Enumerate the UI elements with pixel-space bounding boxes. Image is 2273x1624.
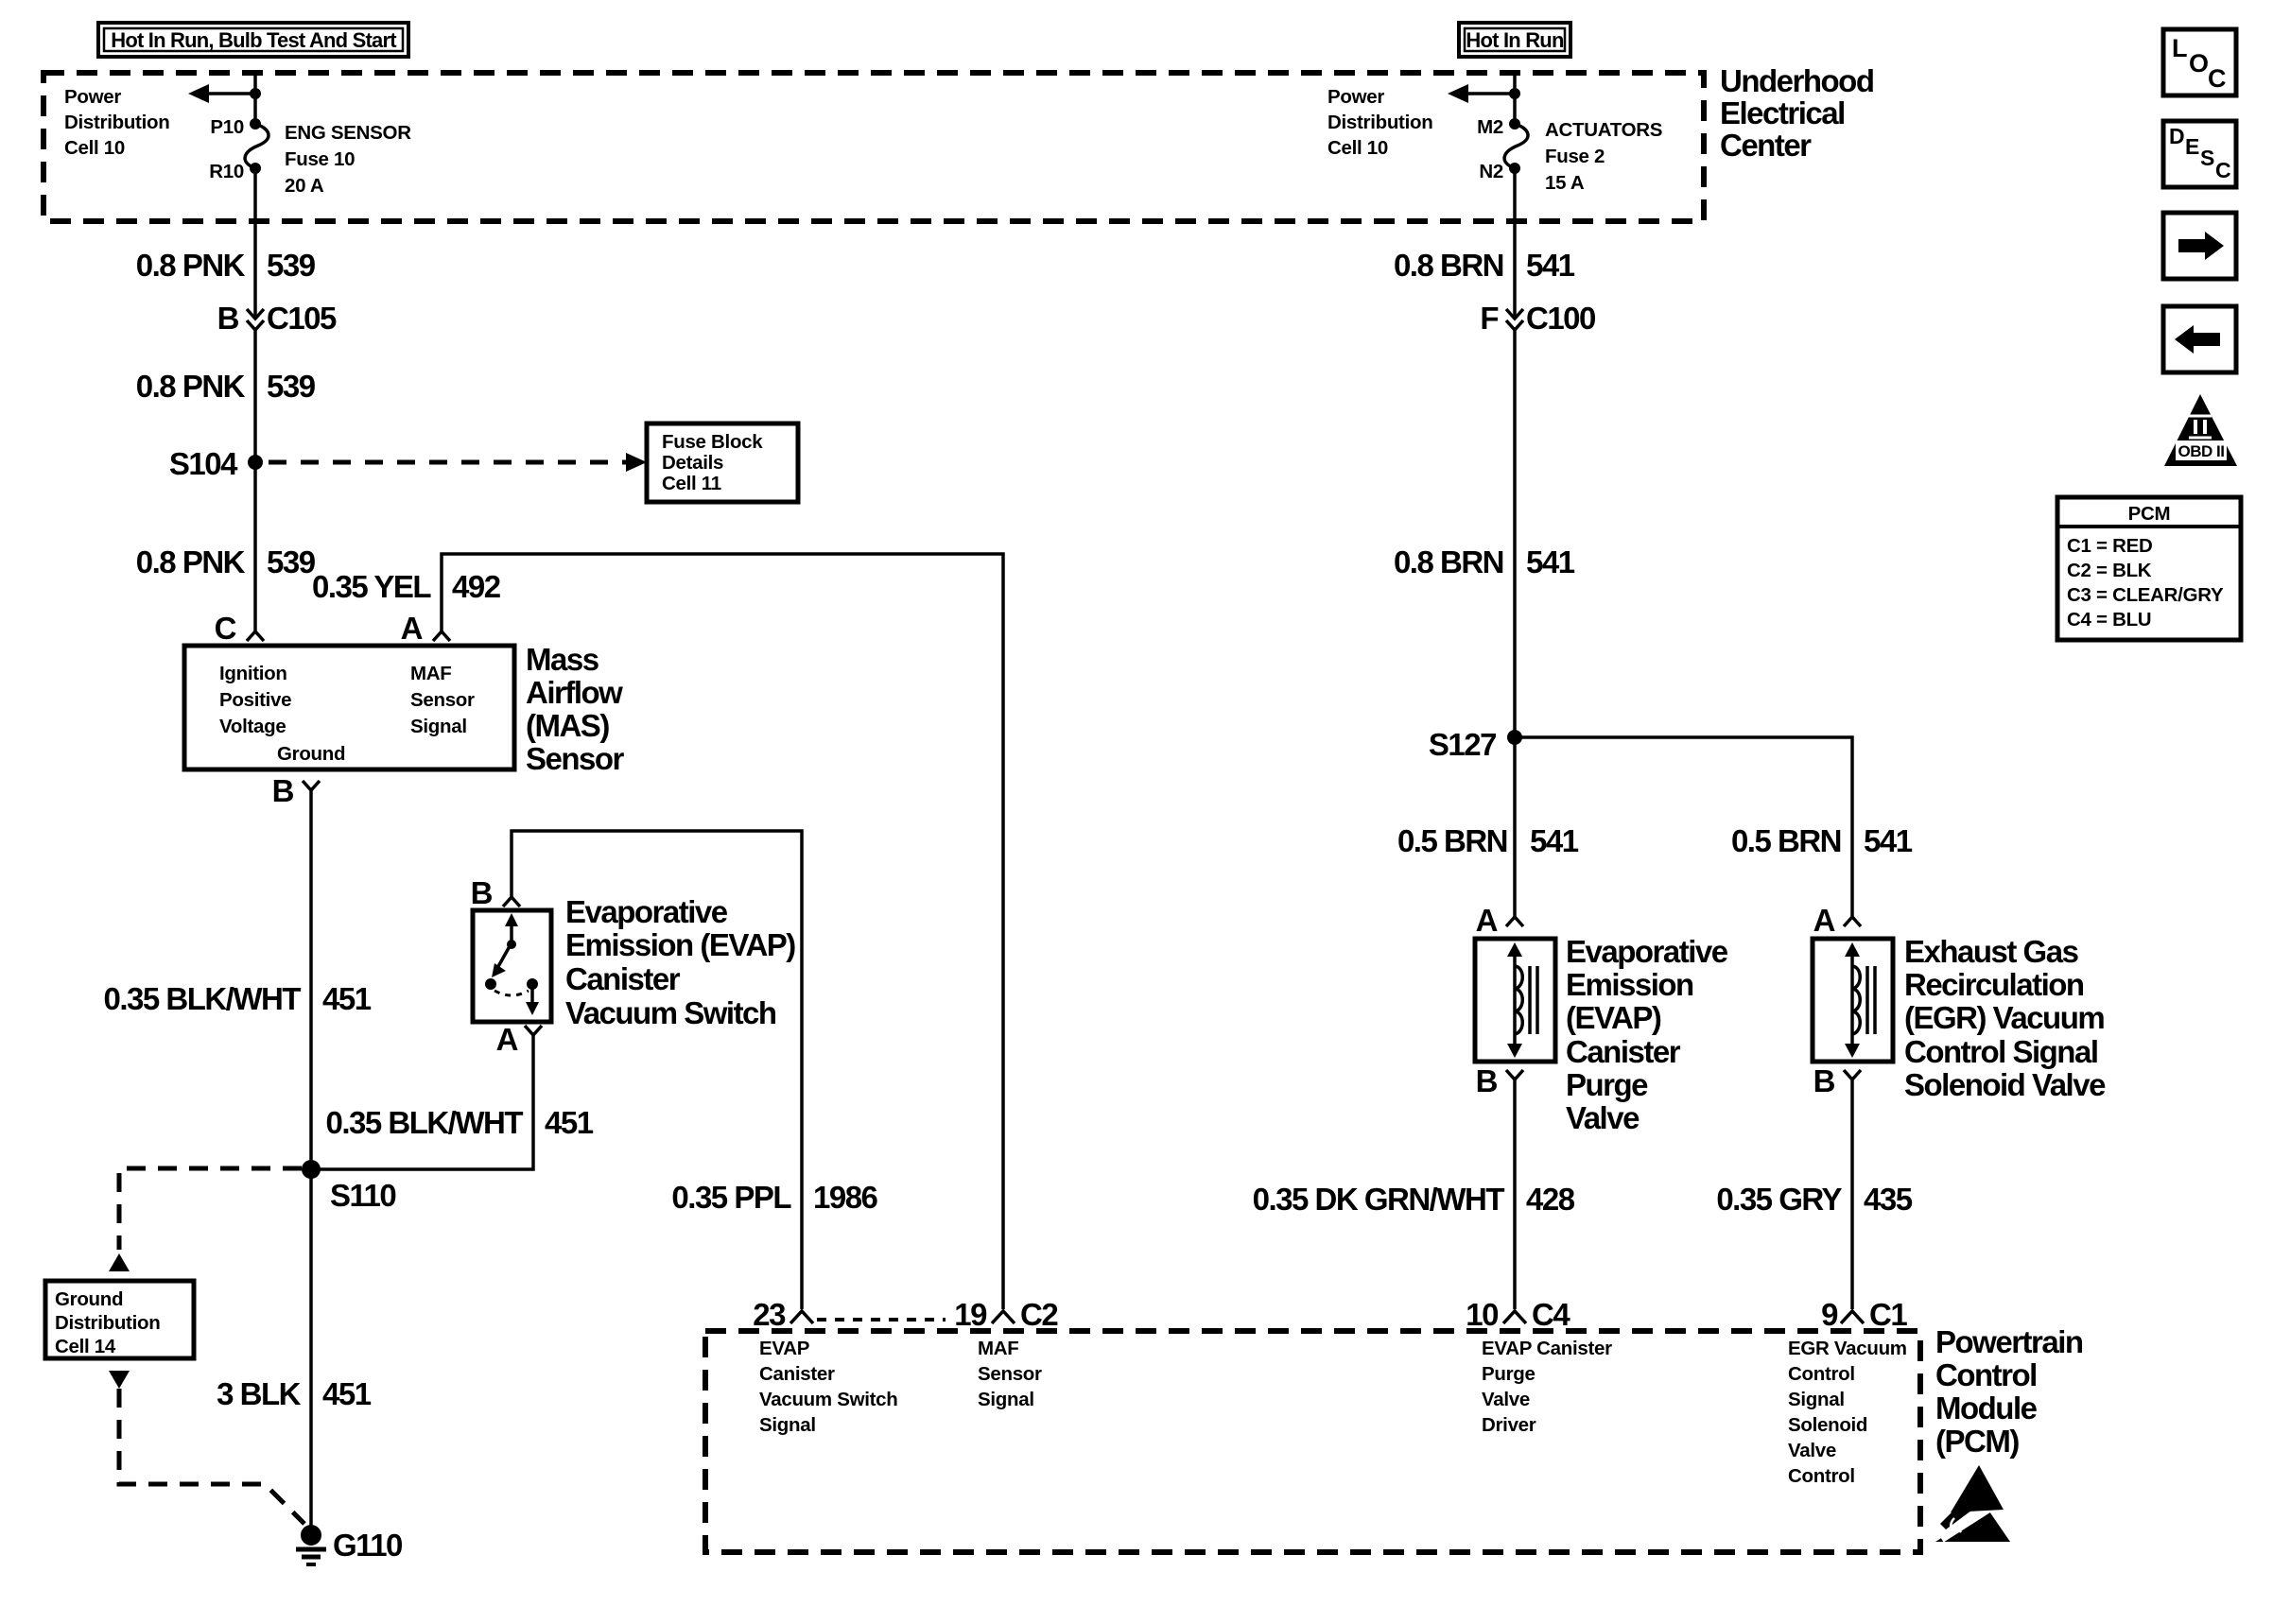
svg-text:Evaporative: Evaporative: [1566, 934, 1728, 969]
svg-text:435: 435: [1864, 1182, 1913, 1217]
svg-text:541: 541: [1864, 823, 1913, 858]
label Ignition Positive Voltage: [219, 663, 291, 737]
label MAF Sensor Signal: [410, 663, 475, 737]
MAF (Mass Airflow) sensor box U1: [184, 646, 514, 769]
svg-text:Fuse Block: Fuse Block: [662, 431, 763, 453]
wire S127 down to EVAP purge solenoid: [1513, 737, 1517, 917]
svg-text:451: 451: [322, 981, 372, 1016]
wire: feed from Hot In Run into fuse M2: [1513, 70, 1517, 124]
svg-text:492: 492: [452, 569, 501, 604]
wire label 3 BLK 451: [217, 1376, 372, 1411]
svg-text:Ground: Ground: [55, 1288, 123, 1310]
svg-text:Cell 11: Cell 11: [662, 473, 721, 494]
svg-text:3 BLK: 3 BLK: [217, 1376, 302, 1411]
svg-text:R10: R10: [209, 161, 244, 182]
connector C100 (in-line, pin F): [1480, 301, 1595, 336]
svg-text:N2: N2: [1479, 161, 1503, 182]
svg-text:1986: 1986: [813, 1180, 878, 1215]
wire (dashed) S110 to Ground Distribution: [119, 1168, 302, 1250]
svg-text:Signal: Signal: [1788, 1389, 1845, 1410]
svg-text:Canister: Canister: [565, 961, 681, 996]
svg-text:0.35 YEL: 0.35 YEL: [312, 569, 431, 604]
svg-text:Valve: Valve: [1482, 1389, 1530, 1410]
wire label 0.8 PNK 539: [136, 544, 316, 579]
svg-text:(EVAP): (EVAP): [1566, 1000, 1661, 1035]
svg-text:451: 451: [545, 1105, 594, 1140]
svg-text:C105: C105: [267, 301, 337, 336]
svg-text:S: S: [2200, 146, 2214, 170]
wire (dashed) S104 to Fuse Block Details: [269, 453, 647, 472]
wire: feed from Hot In Run into fuse P10: [253, 70, 257, 124]
svg-text:E: E: [2185, 134, 2199, 159]
svg-text:541: 541: [1526, 248, 1575, 283]
wire label 0.35 PPL 1986: [671, 1180, 877, 1215]
EGR vacuum control solenoid L2: [1813, 939, 1893, 1062]
arrowhead out of Ground Distribution box: [109, 1371, 130, 1389]
pin 10 of PCM connector C4: [1466, 1297, 1570, 1332]
svg-text:Distribution: Distribution: [1327, 112, 1432, 133]
label EVAP Canister Vacuum Switch Signal: [759, 1338, 897, 1436]
wire 0.8 BRN 541 (C100 to S127): [1513, 330, 1517, 737]
wire label 0.8 PNK 539: [136, 369, 316, 404]
svg-text:Ignition: Ignition: [219, 663, 287, 684]
svg-text:0.35 BLK/WHT: 0.35 BLK/WHT: [103, 981, 301, 1016]
legend box PCM connectors: [2057, 497, 2241, 640]
svg-text:539: 539: [267, 248, 316, 283]
node S110: [302, 1160, 395, 1213]
svg-text:G110: G110: [333, 1528, 402, 1563]
label Evaporative Emission (EVAP) Canister Vacuum Switch: [565, 894, 795, 1030]
pin B of EVAP canister vacuum switch: [471, 875, 520, 910]
svg-text:0.35 GRY: 0.35 GRY: [1716, 1182, 1842, 1217]
svg-text:539: 539: [267, 369, 316, 404]
svg-text:Control Signal: Control Signal: [1904, 1034, 2098, 1069]
wire label 0.5 BRN 541 (right): [1731, 823, 1913, 858]
svg-text:Distribution: Distribution: [64, 112, 169, 133]
svg-text:C2 = BLK: C2 = BLK: [2067, 560, 2152, 581]
wire label 0.35 BLK/WHT 451: [103, 981, 371, 1016]
wire 0.35 GRY 435 (to PCM pin 9): [1850, 1080, 1854, 1309]
svg-text:O: O: [2189, 49, 2208, 78]
svg-text:D: D: [2169, 124, 2184, 148]
svg-text:19: 19: [954, 1297, 987, 1332]
wire label 0.35 GRY 435: [1716, 1182, 1912, 1217]
svg-text:9: 9: [1821, 1297, 1838, 1332]
label Powertrain Control Module (PCM): [1935, 1324, 2083, 1459]
svg-text:Sensor: Sensor: [978, 1363, 1042, 1385]
svg-text:23: 23: [753, 1297, 786, 1332]
svg-text:MAF: MAF: [978, 1338, 1019, 1359]
svg-text:A: A: [401, 611, 423, 646]
svg-text:Distribution: Distribution: [55, 1312, 160, 1334]
label box Fuse Block Details Cell 11: [647, 423, 798, 502]
svg-text:A: A: [1813, 903, 1835, 938]
svg-text:0.8 BRN: 0.8 BRN: [1394, 248, 1503, 283]
svg-text:Fuse 2: Fuse 2: [1545, 146, 1605, 167]
svg-text:ACTUATORS: ACTUATORS: [1545, 119, 1662, 141]
svg-text:Cell 14: Cell 14: [55, 1336, 116, 1357]
wire label 0.5 BRN 541 (left): [1397, 823, 1579, 858]
pin B of EGR solenoid: [1813, 1063, 1861, 1098]
pin 9 of PCM connector C1: [1821, 1297, 1907, 1332]
svg-text:MAF: MAF: [410, 663, 452, 684]
svg-text:(MAS): (MAS): [526, 708, 609, 743]
svg-text:Vacuum Switch: Vacuum Switch: [759, 1389, 897, 1410]
svg-text:Hot In Run, Bulb Test And Star: Hot In Run, Bulb Test And Start: [111, 28, 397, 52]
switch symbol inside: [485, 913, 539, 1015]
svg-text:C1 = RED: C1 = RED: [2067, 535, 2152, 557]
svg-text:Purge: Purge: [1566, 1067, 1648, 1102]
svg-text:Driver: Driver: [1482, 1414, 1536, 1436]
label box Hot In Run, Bulb Test And Start: [98, 23, 408, 57]
svg-text:Module: Module: [1935, 1391, 2038, 1425]
svg-text:0.35 DK GRN/WHT: 0.35 DK GRN/WHT: [1253, 1182, 1505, 1217]
pin A of EVAP purge solenoid: [1476, 903, 1523, 938]
svg-text:C4 = BLU: C4 = BLU: [2067, 609, 2151, 631]
svg-text:Electrical: Electrical: [1720, 95, 1845, 130]
node S127: [1429, 727, 1522, 762]
svg-text:Emission (EVAP): Emission (EVAP): [565, 927, 795, 962]
wire 0.8 PNK 539 (fuse to C105): [253, 168, 257, 319]
svg-text:C1: C1: [1869, 1297, 1907, 1332]
label Evaporative Emission (EVAP) Canister Purge Valve: [1566, 934, 1728, 1135]
svg-text:Canister: Canister: [1566, 1034, 1681, 1069]
wire S127 branch to EGR solenoid: [1515, 737, 1852, 917]
label Mass Airflow (MAS) Sensor: [526, 642, 625, 776]
svg-text:C2: C2: [1020, 1297, 1058, 1332]
svg-text:B: B: [217, 301, 239, 336]
svg-text:541: 541: [1526, 544, 1575, 579]
wire label 0.8 PNK 539: [136, 248, 316, 283]
EVAP canister vacuum switch box S1: [473, 910, 551, 1022]
svg-text:F: F: [1480, 301, 1498, 336]
svg-text:S104: S104: [169, 446, 238, 481]
wire 0.8 PNK 539 (C105 to S104): [253, 330, 257, 462]
pin A of EVAP canister vacuum switch: [496, 1022, 542, 1057]
svg-text:Signal: Signal: [759, 1414, 816, 1436]
pin B of EVAP purge solenoid: [1476, 1063, 1523, 1098]
svg-text:Valve: Valve: [1788, 1440, 1836, 1461]
svg-text:0.35 PPL: 0.35 PPL: [671, 1180, 791, 1215]
EVAP canister purge valve solenoid L1: [1475, 939, 1555, 1062]
wire label 0.8 BRN 541: [1394, 544, 1575, 579]
svg-text:Sensor: Sensor: [526, 741, 625, 776]
svg-text:Vacuum Switch: Vacuum Switch: [565, 995, 776, 1030]
fuse F10 ENG SENSOR (P10/R10 terminals + element): [245, 118, 269, 174]
node junction dot right: [1509, 88, 1520, 99]
svg-text:EVAP: EVAP: [759, 1338, 809, 1359]
value label ENG SENSOR Fuse 10 20 A: [285, 122, 411, 197]
svg-text:Evaporative: Evaporative: [565, 894, 728, 929]
wire 0.8 PNK 539 (S104 to MAF pin C): [253, 462, 257, 631]
pin B of MAF sensor: [272, 773, 320, 808]
icon LOC box: [2163, 29, 2236, 95]
svg-text:B: B: [272, 773, 294, 808]
svg-text:EGR Vacuum: EGR Vacuum: [1788, 1338, 1907, 1359]
svg-text:539: 539: [267, 544, 316, 579]
wire label 0.8 BRN 541: [1394, 248, 1575, 283]
wire 3 BLK 451 (S110 to G110): [309, 1169, 313, 1531]
icon left-arrow box: [2163, 306, 2236, 372]
svg-text:C100: C100: [1526, 301, 1595, 336]
svg-text:C4: C4: [1532, 1297, 1570, 1332]
svg-text:OBD II: OBD II: [2178, 442, 2225, 460]
pin 23 of PCM: [753, 1297, 813, 1332]
node junction dot left: [250, 88, 261, 99]
svg-text:P10: P10: [210, 116, 244, 138]
svg-text:Control: Control: [1788, 1465, 1855, 1487]
pin A of MAF sensor: [401, 611, 450, 646]
value label ACTUATORS Fuse 2 15 A: [1545, 119, 1662, 194]
svg-text:Hot In Run: Hot In Run: [1466, 28, 1564, 52]
svg-text:541: 541: [1530, 823, 1579, 858]
svg-text:ENG SENSOR: ENG SENSOR: [285, 122, 411, 144]
svg-text:B: B: [1476, 1063, 1498, 1098]
svg-text:Airflow: Airflow: [526, 675, 623, 710]
label Exhaust Gas Recirculation (EGR) Vacuum Control Signal Solenoid Valve: [1904, 934, 2106, 1102]
svg-text:S110: S110: [330, 1178, 395, 1213]
svg-text:Mass: Mass: [526, 642, 599, 677]
svg-text:10: 10: [1466, 1297, 1498, 1332]
wire 0.35 BLK/WHT 451 (switch pin A to S110): [311, 1035, 533, 1169]
svg-text:0.8 BRN: 0.8 BRN: [1394, 544, 1503, 579]
svg-text:A: A: [1476, 903, 1498, 938]
Underhood Electrical Center dashed box: [43, 73, 1704, 221]
pin A of EGR solenoid: [1813, 903, 1861, 938]
svg-text:Center: Center: [1720, 128, 1812, 163]
pin C of MAF sensor: [215, 611, 264, 646]
pin 19 of PCM connector C2: [954, 1297, 1058, 1332]
svg-text:C: C: [215, 611, 236, 646]
svg-text:S127: S127: [1429, 727, 1496, 762]
svg-text:Valve: Valve: [1566, 1100, 1640, 1135]
svg-text:C: C: [2208, 64, 2226, 93]
svg-text:Canister: Canister: [759, 1363, 835, 1385]
ground G110: [296, 1525, 402, 1564]
wire label 0.35 YEL 492: [312, 569, 501, 604]
connector C105 (in-line, pin B): [217, 301, 337, 336]
wire label 0.35 DK GRN/WHT 428: [1253, 1182, 1575, 1217]
svg-text:15 A: 15 A: [1545, 172, 1585, 194]
svg-text:0.8 PNK: 0.8 PNK: [136, 544, 246, 579]
svg-text:L: L: [2172, 34, 2187, 62]
icon DESC box: [2163, 121, 2236, 187]
icon OBD II triangle: [2164, 394, 2237, 466]
icon ESD sensitive symbol: [1935, 1465, 2010, 1542]
label box Hot In Run: [1459, 23, 1570, 57]
icon right-arrow box: [2163, 213, 2236, 279]
wire 0.8 BRN 541 (fuse to C100): [1513, 168, 1517, 319]
svg-text:C: C: [2215, 158, 2230, 182]
svg-text:(PCM): (PCM): [1935, 1424, 2019, 1459]
svg-text:451: 451: [322, 1376, 372, 1411]
label Power Distribution Cell 10 (left): [64, 86, 169, 159]
svg-text:(EGR) Vacuum: (EGR) Vacuum: [1904, 1000, 2104, 1035]
svg-text:Exhaust Gas: Exhaust Gas: [1904, 934, 2078, 969]
svg-text:0.35 BLK/WHT: 0.35 BLK/WHT: [325, 1105, 523, 1140]
svg-text:EVAP Canister: EVAP Canister: [1482, 1338, 1612, 1359]
svg-text:Solenoid Valve: Solenoid Valve: [1904, 1067, 2106, 1102]
wire (dashed) connector link pin 23 to pin 19: [817, 1318, 946, 1322]
label Underhood Electrical Center: [1720, 63, 1873, 163]
arrowhead into Ground Distribution box: [109, 1253, 130, 1271]
fuse F2 ACTUATORS (M2/N2 terminals + element): [1504, 118, 1528, 174]
svg-text:Signal: Signal: [410, 716, 467, 737]
svg-text:0.8 PNK: 0.8 PNK: [136, 248, 246, 283]
svg-text:Sensor: Sensor: [410, 689, 475, 711]
arrow to Power Distribution (left): [188, 84, 255, 103]
svg-text:Purge: Purge: [1482, 1363, 1536, 1385]
svg-text:Voltage: Voltage: [219, 716, 286, 737]
svg-text:B: B: [471, 875, 493, 910]
label EGR Vacuum Control Signal Solenoid Valve Control: [1788, 1338, 1907, 1487]
svg-text:B: B: [1813, 1063, 1835, 1098]
svg-text:Control: Control: [1935, 1357, 2037, 1392]
svg-text:0.5 BRN: 0.5 BRN: [1731, 823, 1841, 858]
wire 0.35 DK GRN/WHT 428 (to PCM pin 10): [1513, 1080, 1517, 1309]
label EVAP Canister Purge Valve Driver: [1482, 1338, 1612, 1436]
svg-text:Details: Details: [662, 452, 723, 474]
svg-text:0.8 PNK: 0.8 PNK: [136, 369, 246, 404]
arrow to Power Distribution (right): [1448, 84, 1515, 103]
wire 0.35 YEL 492 (MAF pin A to PCM pin 19): [442, 554, 1003, 1309]
svg-text:Ground: Ground: [277, 743, 345, 765]
svg-text:0.5 BRN: 0.5 BRN: [1397, 823, 1507, 858]
svg-text:PCM: PCM: [2128, 503, 2171, 525]
svg-text:Powertrain: Powertrain: [1935, 1324, 2083, 1359]
svg-text:Signal: Signal: [978, 1389, 1034, 1410]
svg-text:M2: M2: [1477, 116, 1503, 138]
svg-text:Recirculation: Recirculation: [1904, 967, 2084, 1002]
svg-text:Cell 10: Cell 10: [64, 137, 125, 159]
label MAF Sensor Signal: [978, 1338, 1042, 1410]
svg-text:C3 = CLEAR/GRY: C3 = CLEAR/GRY: [2067, 584, 2224, 606]
svg-text:Solenoid: Solenoid: [1788, 1414, 1867, 1436]
label Power Distribution Cell 10 (right): [1327, 86, 1432, 159]
svg-text:Fuse 10: Fuse 10: [285, 148, 355, 170]
svg-text:Underhood: Underhood: [1720, 63, 1873, 98]
svg-text:Positive: Positive: [219, 689, 291, 711]
wire label 0.35 BLK/WHT 451: [325, 1105, 593, 1140]
svg-text:Power: Power: [64, 86, 121, 108]
svg-text:Emission: Emission: [1566, 967, 1693, 1002]
wire 0.35 BLK/WHT 451 (MAF pin B to S110): [309, 790, 313, 1169]
svg-text:A: A: [496, 1022, 518, 1057]
svg-text:Cell 10: Cell 10: [1327, 137, 1388, 159]
svg-text:Control: Control: [1788, 1363, 1855, 1385]
svg-text:428: 428: [1526, 1182, 1575, 1217]
wire (dashed) Ground Distribution to G110: [119, 1389, 304, 1524]
svg-text:20 A: 20 A: [285, 175, 324, 197]
svg-text:Power: Power: [1327, 86, 1384, 108]
node S104: [169, 446, 263, 481]
wire: EVAP vacuum switch pin B to PCM pin 23: [512, 831, 802, 1309]
PCM dashed box: [705, 1331, 1920, 1552]
label box Ground Distribution Cell 14: [45, 1281, 194, 1358]
